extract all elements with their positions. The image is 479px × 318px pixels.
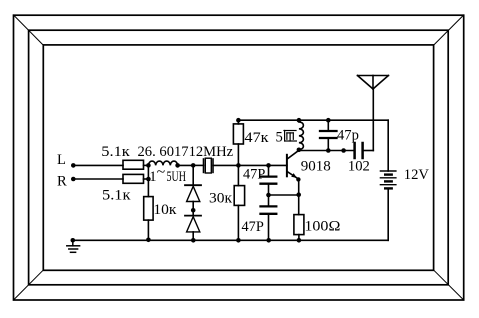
svg-text:R: R	[57, 174, 67, 190]
junction node C6 ground bus	[266, 238, 271, 243]
wire top bus right corner down	[387, 120, 389, 171]
resistor R2 5.1k	[123, 174, 144, 183]
resistor R1 5.1k	[123, 160, 144, 169]
capacitor C6 47P	[261, 195, 277, 240]
junction node bias	[236, 163, 241, 168]
antenna ANT1	[358, 76, 389, 90]
wire crystal to bias node	[213, 164, 238, 166]
svg-text:5.1к: 5.1к	[101, 144, 131, 160]
wire antenna feed vertical	[372, 89, 374, 151]
capacitor C3 47p	[320, 120, 337, 150]
svg-text:26. 601712MHz: 26. 601712MHz	[138, 144, 234, 160]
wire R2 to mix junction	[144, 178, 149, 180]
junction node mix L1	[146, 163, 151, 168]
battery BT1 12V	[380, 171, 396, 188]
wire emitter vertical	[298, 179, 300, 214]
junction node D2 ground bus	[191, 238, 196, 243]
resistor R6 100ohm	[294, 215, 304, 235]
wire collector line	[299, 150, 354, 152]
junction node L2 collector	[297, 148, 302, 153]
wire D1 to D2	[192, 202, 194, 216]
resistor R4 47k	[233, 124, 243, 144]
wire R1 to mix junction	[144, 164, 149, 166]
svg-text:L: L	[57, 152, 66, 168]
wire R input to R2	[73, 178, 123, 180]
svg-text:100Ω: 100Ω	[304, 219, 340, 235]
wire L input to R1	[73, 164, 123, 166]
wire battery to ground bus	[387, 188, 389, 240]
wire R3 to ground bus	[147, 220, 149, 240]
label L2 5 turns	[276, 130, 283, 146]
junction node R6 ground bus	[297, 238, 302, 243]
resistor R3 10k	[144, 197, 153, 221]
node L input terminal	[71, 163, 76, 168]
capacitor C4 102	[355, 143, 363, 158]
svg-text:47к: 47к	[245, 130, 270, 146]
svg-text:102: 102	[348, 159, 370, 175]
wire mix junction vertical	[147, 165, 149, 196]
svg-text:10к: 10к	[153, 202, 177, 218]
wire ground bus	[73, 239, 388, 241]
svg-text:30к: 30к	[209, 191, 233, 207]
node R input terminal	[71, 177, 76, 182]
label L2 turns glyph	[284, 131, 296, 142]
inductor L1	[148, 161, 177, 165]
node L1 right	[175, 163, 180, 168]
capacitor C5 47P	[261, 165, 277, 195]
wire D2 to ground bus	[192, 232, 194, 240]
junction node emitter wire	[296, 192, 301, 197]
junction node R5 ground bus	[236, 238, 241, 243]
label L1 value 1~5UH	[149, 165, 186, 186]
junction node C4 left	[341, 148, 346, 153]
crystal Y1	[204, 158, 214, 173]
resistor R5 30k	[234, 186, 244, 206]
svg-text:47P: 47P	[243, 167, 265, 183]
wire bias node to base	[238, 164, 287, 166]
varactor diode D1	[185, 185, 201, 201]
inductor L2 5 turns	[299, 120, 303, 149]
wire bias node to R5	[237, 165, 239, 185]
wire top bus to R4	[237, 120, 239, 124]
junction node C3 top bus	[326, 118, 331, 123]
svg-text:5: 5	[276, 130, 283, 146]
wire R5 to ground bus	[237, 205, 239, 240]
svg-text:~: ~	[157, 165, 166, 181]
ground	[67, 240, 80, 252]
wire varactor tap down	[192, 165, 194, 185]
junction node ground symbol	[71, 238, 76, 243]
junction node R3 ground bus	[146, 238, 151, 243]
varactor diode D2	[185, 216, 201, 232]
transistor Q1 9018	[287, 150, 301, 181]
junction node L2 top	[297, 118, 302, 123]
wire tap to crystal	[193, 164, 203, 166]
wire C5 C6 node to emitter	[269, 194, 299, 196]
svg-text:9018: 9018	[301, 159, 331, 175]
junction node D1 D2	[191, 208, 196, 213]
wire R6 to ground bus	[298, 235, 300, 241]
svg-text:12V: 12V	[404, 167, 430, 183]
svg-text:47P: 47P	[242, 219, 264, 235]
wire C4 to antenna feed	[364, 150, 373, 152]
wire R4 to bias node	[237, 144, 239, 165]
node top bus left end	[236, 118, 241, 123]
junction node C5 top	[266, 163, 271, 168]
junction node C5 C6	[266, 193, 271, 198]
junction node varactor tap	[191, 163, 196, 168]
svg-text:5.1к: 5.1к	[102, 188, 132, 204]
junction node C3 collector line	[326, 148, 331, 153]
svg-text:5UH: 5UH	[167, 169, 187, 185]
svg-text:1: 1	[149, 169, 156, 185]
wire top supply bus	[238, 119, 388, 121]
svg-text:47p: 47p	[337, 128, 359, 144]
junction node mix R2	[146, 177, 151, 182]
wire L1 to varactor tap	[178, 164, 194, 166]
